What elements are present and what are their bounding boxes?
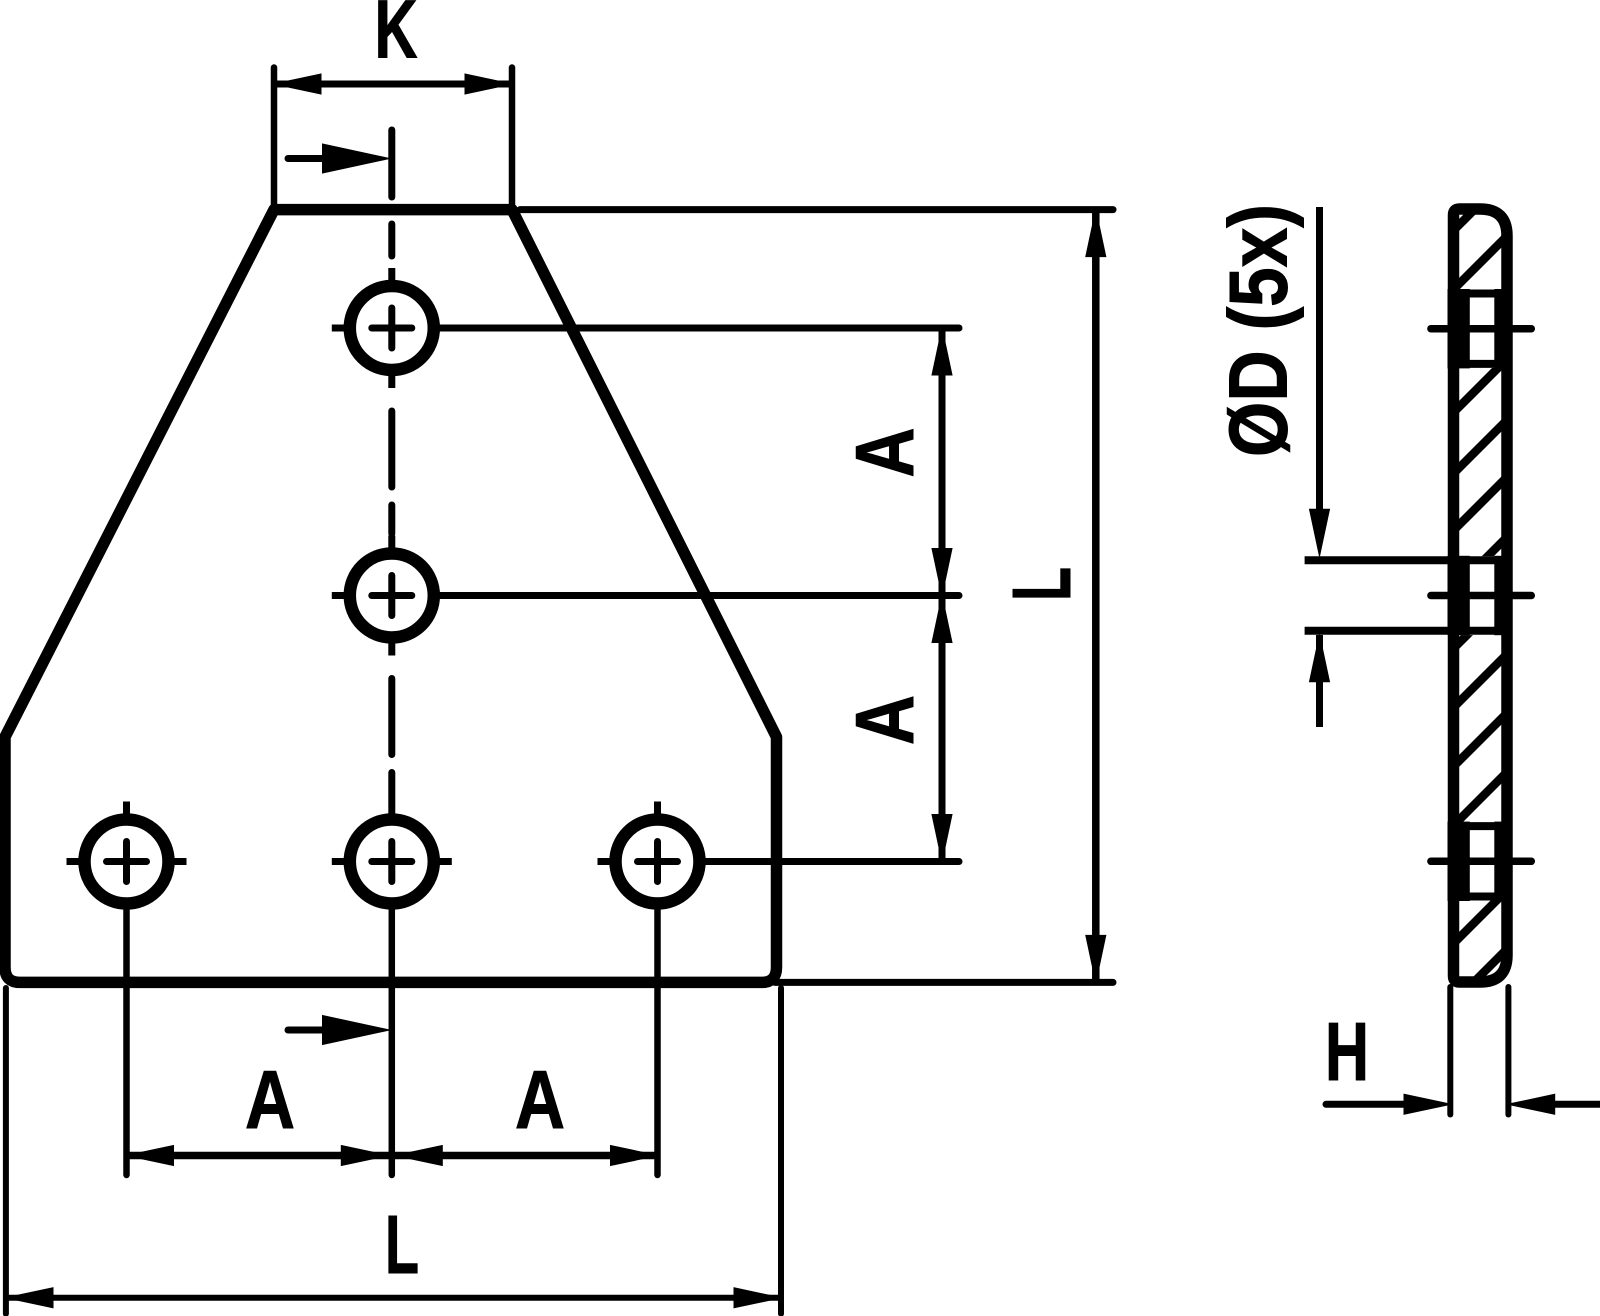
extension line from top hole to A dimension <box>438 325 960 332</box>
side view: section hatching <box>1434 157 1527 1022</box>
hole T (top) <box>332 268 434 388</box>
bottom leader arrow to centerline <box>288 1016 390 1045</box>
dimension L (right): bottom extension line <box>775 979 1113 986</box>
dimension L (right): top extension line <box>520 206 1113 213</box>
centerline extension below bottom-left hole <box>123 907 130 1175</box>
centerline extension below bottom-center hole <box>389 907 396 1175</box>
svg-text:A: A <box>245 1053 295 1146</box>
dimension ØD: leader line and arrowheads <box>1310 207 1330 727</box>
dimension H: dimension line with arrowheads <box>1326 1094 1600 1114</box>
top leader arrow to centerline <box>288 130 392 197</box>
hole B2 (bottom-center) <box>332 802 452 904</box>
hole M (middle) <box>332 536 434 656</box>
svg-text:K: K <box>375 0 418 76</box>
svg-text:A: A <box>838 695 931 745</box>
dimension K: left extension line <box>271 68 278 216</box>
dimension H: left extension line <box>1447 987 1453 1115</box>
dimension K: dimension line with arrowheads <box>274 74 512 94</box>
extension line from bottom-right hole to A dimension <box>703 858 959 865</box>
hole B3 (bottom-right) <box>598 802 700 904</box>
dimension L (bottom): left extension line <box>3 988 9 1314</box>
side view: top hole section <box>1431 290 1531 368</box>
centerline extension below bottom-right hole <box>654 907 661 1175</box>
svg-text:A: A <box>515 1053 565 1146</box>
dimension L (bottom): right extension line <box>778 988 784 1314</box>
dimension A (upper right): dimension line and arrowheads <box>932 328 952 862</box>
svg-text:A: A <box>838 428 931 478</box>
side view: bottom hole section <box>1431 822 1531 900</box>
dimension L (right): dimension line with arrowheads <box>1086 210 1106 983</box>
svg-text:ØD (5x): ØD (5x) <box>1212 204 1305 457</box>
svg-text:L: L <box>385 1198 419 1291</box>
extension line from middle hole to A dimension <box>438 592 960 599</box>
side view: section outline <box>1454 209 1508 982</box>
dimension A (bottom): dimension line and arrowheads <box>127 1146 658 1166</box>
plate outline (front view) <box>5 210 777 983</box>
hole B1 (bottom-left) <box>67 802 187 904</box>
dimension L (bottom): dimension line with arrowheads <box>6 1288 781 1308</box>
vertical centerline (dashed) of front view <box>388 224 395 801</box>
svg-text:L: L <box>995 567 1088 601</box>
dimension K: right extension line <box>509 68 516 216</box>
svg-text:H: H <box>1325 1005 1369 1098</box>
side view: middle hole section <box>1305 556 1532 634</box>
dimension H: right extension line <box>1505 987 1511 1115</box>
